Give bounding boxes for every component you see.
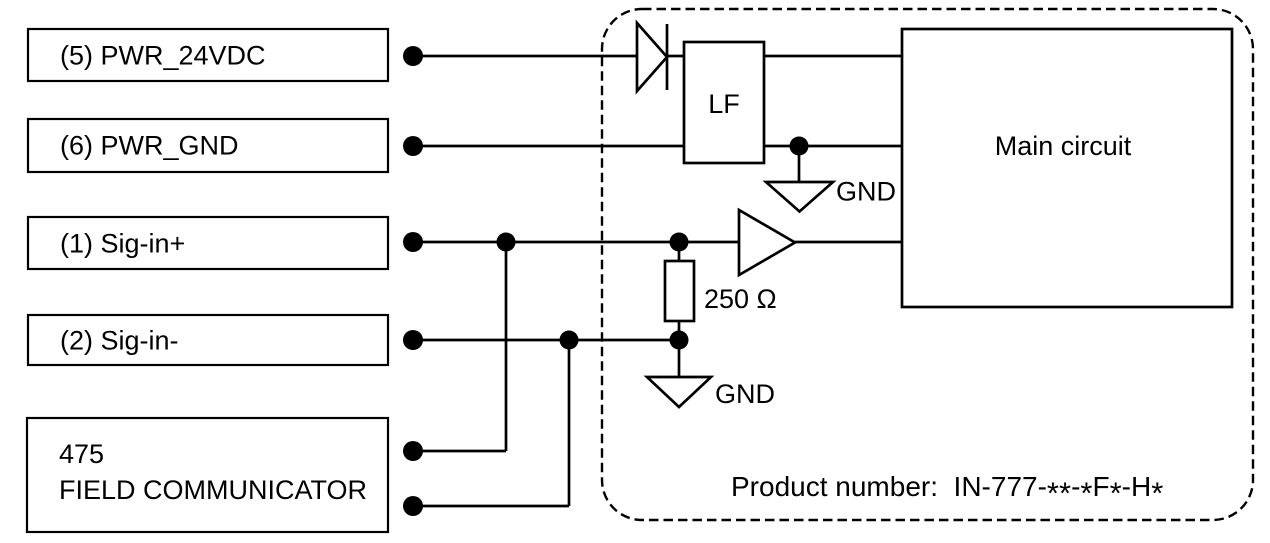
terminal box (6) PWR_GND xyxy=(28,119,388,172)
terminal dot (2) xyxy=(403,330,423,350)
ground GND (power) xyxy=(766,177,896,212)
svg-text:(1) Sig-in+: (1) Sig-in+ xyxy=(60,229,185,259)
wire amplifier output to Main circuit xyxy=(795,241,902,244)
svg-text:(5) PWR_24VDC: (5) PWR_24VDC xyxy=(60,41,266,71)
wire Sig-in+ node down to resistor top xyxy=(678,242,681,262)
ground GND (signal) xyxy=(647,377,775,409)
svg-text:GND: GND xyxy=(836,177,896,207)
wire PWR_GND to LF xyxy=(413,145,684,148)
wire resistor bottom to Sig-in- node xyxy=(678,320,681,340)
terminal dot (6) xyxy=(403,136,423,156)
terminal dot (5) xyxy=(403,46,423,66)
diode D1 xyxy=(637,23,667,91)
svg-text:475: 475 xyxy=(59,439,104,469)
wire communicator terminal 2 horizontal xyxy=(413,505,569,508)
svg-text:FIELD COMMUNICATOR: FIELD COMMUNICATOR xyxy=(59,475,367,505)
svg-text:GND: GND xyxy=(715,379,775,409)
junction Sig-in+ / resistor xyxy=(670,233,689,252)
terminal dot (1) xyxy=(403,232,423,252)
terminal box (5) PWR_24VDC xyxy=(28,29,388,81)
terminal dot communicator 2 xyxy=(403,496,423,516)
wire LF to Main circuit (GND) xyxy=(764,145,902,148)
svg-text:LF: LF xyxy=(708,89,740,119)
svg-text:(6) PWR_GND: (6) PWR_GND xyxy=(60,131,239,161)
junction PWR_GND / ground xyxy=(790,137,809,156)
wire Sig-in+ to amplifier input xyxy=(413,241,740,244)
svg-text:(2) Sig-in-: (2) Sig-in- xyxy=(60,326,179,356)
junction Sig-in- / resistor / ground xyxy=(670,331,689,350)
wire Sig-in- to resistor node xyxy=(413,339,679,342)
wire communicator terminal 1 horizontal xyxy=(413,450,506,453)
wire PWR_24VDC to diode and LF xyxy=(413,55,684,58)
terminal box (2) Sig-in- xyxy=(28,315,388,365)
wire vertical Sig-in+ to communicator 1 xyxy=(505,242,508,451)
wire vertical Sig-in- to communicator 2 xyxy=(568,340,571,506)
wire LF to Main circuit (24VDC) xyxy=(764,55,902,58)
Main circuit block xyxy=(902,29,1232,307)
wire Sig-in- node down to ground xyxy=(678,340,681,378)
wire PWR_GND node down to ground xyxy=(798,146,801,183)
svg-text:Main circuit: Main circuit xyxy=(995,131,1132,161)
terminal box 475 FIELD COMMUNICATOR xyxy=(27,418,388,532)
resistor 250 ohm xyxy=(665,261,777,321)
amplifier U1 xyxy=(739,210,795,275)
svg-text:250 Ω: 250 Ω xyxy=(704,284,777,314)
junction Sig-in+ / communicator 1 xyxy=(497,233,516,252)
terminal box (1) Sig-in+ xyxy=(28,217,388,269)
junction Sig-in- / communicator 2 xyxy=(560,331,579,350)
dashed module outline xyxy=(602,9,1253,520)
terminal dot communicator 1 xyxy=(403,441,423,461)
line filter LF xyxy=(684,42,764,163)
